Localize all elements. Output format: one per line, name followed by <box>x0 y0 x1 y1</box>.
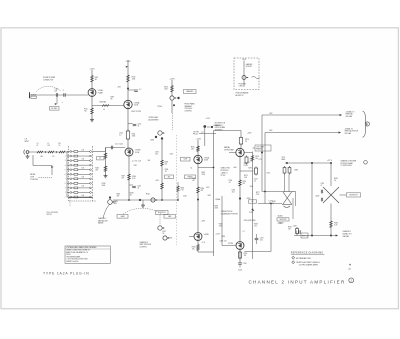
svg-text:TP 262: TP 262 <box>221 175 226 177</box>
svg-text:CONNECTOR: CONNECTOR <box>43 80 54 82</box>
svg-text:R269: R269 <box>219 224 223 226</box>
svg-text:+225V: +225V <box>170 78 176 80</box>
svg-text:+125V: +125V <box>206 118 210 120</box>
svg-text:R259: R259 <box>165 161 169 163</box>
svg-text:R277: R277 <box>163 231 167 233</box>
svg-text:+95V: +95V <box>155 180 159 182</box>
svg-text:R290: R290 <box>244 253 248 255</box>
svg-text:SWEEP 1mS/DIV: SWEEP 1mS/DIV <box>66 261 79 263</box>
svg-text:P250-1: P250-1 <box>158 106 163 108</box>
svg-text:56K: 56K <box>95 169 98 171</box>
svg-text:+12 V: +12 V <box>327 160 333 162</box>
svg-text:220K: 220K <box>202 174 206 176</box>
svg-text:1.5-7.3 4-45: 1.5-7.3 4-45 <box>115 144 123 146</box>
svg-text:C281: C281 <box>321 183 325 185</box>
svg-text:+1.35: +1.35 <box>202 242 206 244</box>
svg-text:C255: C255 <box>170 153 174 155</box>
svg-text:2-8: 2-8 <box>52 156 54 158</box>
svg-text:PROBE: PROBE <box>30 174 35 176</box>
svg-text:-150V: -150V <box>293 226 297 228</box>
svg-text:2.7K: 2.7K <box>181 190 184 192</box>
svg-text:V263B: V263B <box>204 234 209 236</box>
svg-text:.5: .5 <box>63 90 64 92</box>
svg-text:15K: 15K <box>288 229 291 231</box>
svg-text:100K: 100K <box>219 226 223 228</box>
svg-text:2: 2 <box>367 124 368 126</box>
svg-text:R283: R283 <box>334 178 338 180</box>
svg-text:C247: C247 <box>134 165 138 167</box>
svg-text:47: 47 <box>138 126 140 128</box>
svg-text:10X: 10X <box>82 168 85 170</box>
svg-text:C270: C270 <box>244 163 248 165</box>
svg-text:R255: R255 <box>191 146 195 148</box>
svg-text:COUPLING: COUPLING <box>30 179 39 181</box>
svg-text:900K: 900K <box>102 185 106 187</box>
svg-text:L262: L262 <box>269 130 273 132</box>
svg-text:56: 56 <box>103 109 105 111</box>
svg-text:6.2K: 6.2K <box>132 178 135 180</box>
svg-text:+96V: +96V <box>233 167 237 169</box>
svg-text:L2: L2 <box>48 143 50 145</box>
svg-text:10K: 10K <box>191 148 194 150</box>
svg-text:3K: 3K <box>111 99 113 101</box>
svg-text:NUVISTOR: NUVISTOR <box>280 219 287 221</box>
svg-text:6DJ8: 6DJ8 <box>204 160 208 162</box>
svg-text:1K: 1K <box>334 180 336 182</box>
svg-text:15K: 15K <box>192 249 195 251</box>
svg-text:C290: C290 <box>243 263 247 265</box>
svg-text:CONNECTED IN: CONNECTED IN <box>221 211 232 213</box>
svg-text:TO HTR: TO HTR <box>193 132 200 134</box>
svg-text:10X: 10X <box>82 186 85 188</box>
svg-text:POSITION: POSITION <box>158 212 165 214</box>
svg-text:1pF: 1pF <box>55 90 58 92</box>
svg-text:6DJ8: 6DJ8 <box>134 105 138 107</box>
svg-text:C264: C264 <box>232 189 236 191</box>
svg-text:MONITOR: MONITOR <box>350 195 359 197</box>
svg-text:+125V: +125V <box>201 221 205 223</box>
svg-text:5K: 5K <box>163 233 165 235</box>
svg-text:+85V: +85V <box>117 87 121 89</box>
svg-text:PICKOFF B: PICKOFF B <box>221 170 229 172</box>
svg-text:GANGED: GANGED <box>186 90 194 93</box>
svg-text:+62V: +62V <box>206 187 210 189</box>
svg-text:L252: L252 <box>269 113 273 115</box>
svg-text:R282: R282 <box>288 227 292 229</box>
svg-text:C275: C275 <box>267 172 271 174</box>
svg-text:10K: 10K <box>244 255 247 257</box>
svg-text:4.7: 4.7 <box>243 231 245 233</box>
svg-text:R267: R267 <box>215 205 219 207</box>
svg-text:CONTROL: CONTROL <box>185 111 192 113</box>
svg-text:.01: .01 <box>137 188 139 190</box>
svg-text:Q283: Q283 <box>316 195 320 197</box>
svg-text:R273: R273 <box>244 175 248 177</box>
svg-text:C263: C263 <box>254 179 258 181</box>
svg-text:R281: R281 <box>295 169 299 171</box>
svg-text:1K: 1K <box>165 171 167 173</box>
svg-text:R250: R250 <box>132 77 136 79</box>
svg-text:R280: R280 <box>272 201 276 203</box>
svg-text:100K: 100K <box>132 79 136 81</box>
svg-text:A-7: A-7 <box>349 267 352 270</box>
svg-text:10X: 10X <box>82 158 85 160</box>
svg-text:C1: C1 <box>37 143 39 145</box>
svg-text:R266: R266 <box>201 188 205 190</box>
svg-text:R260: R260 <box>181 188 185 190</box>
svg-text:47: 47 <box>321 185 323 187</box>
svg-text:V279: V279 <box>282 157 286 159</box>
svg-text:750: 750 <box>84 111 87 113</box>
svg-text:2.2: 2.2 <box>119 134 121 136</box>
svg-text:PIN 4,5: PIN 4,5 <box>193 134 198 136</box>
svg-text:R3: R3 <box>59 143 61 145</box>
svg-text:VERT POSITION: VERT POSITION <box>140 244 152 246</box>
svg-text:LOOP: LOOP <box>30 177 34 179</box>
svg-text:CHANNEL 2 INPUT AMPLIFIER: CHANNEL 2 INPUT AMPLIFIER <box>249 279 346 284</box>
svg-text:47K: 47K <box>201 190 204 192</box>
svg-text:R277: R277 <box>256 192 260 194</box>
svg-text:4-7: 4-7 <box>269 202 271 204</box>
svg-text:INPUT: INPUT <box>25 141 30 143</box>
svg-text:R286: R286 <box>254 224 258 226</box>
svg-text:TYPE 1A2A PLUG-IN: TYPE 1A2A PLUG-IN <box>43 271 89 275</box>
svg-text:330K: 330K <box>132 136 136 138</box>
svg-text:.001: .001 <box>40 156 43 158</box>
svg-text:R276: R276 <box>255 156 259 158</box>
svg-text:L270 TRIM: L270 TRIM <box>256 147 264 149</box>
svg-text:CONTROL: CONTROL <box>140 246 147 248</box>
svg-text:CH 2 VOLTS/DIV: CH 2 VOLTS/DIV <box>47 212 59 214</box>
svg-text:C258: C258 <box>183 159 187 161</box>
svg-text:.001: .001 <box>260 240 263 242</box>
svg-text:.001: .001 <box>232 191 235 193</box>
svg-text:C287: C287 <box>260 238 264 240</box>
svg-text:1K: 1K <box>245 141 247 143</box>
svg-text:ATTENUATORS: ATTENUATORS <box>296 257 311 260</box>
svg-text:R240: R240 <box>102 183 106 185</box>
svg-text:TO SWITCHING: TO SWITCHING <box>341 165 353 167</box>
svg-text:.005: .005 <box>155 154 158 156</box>
svg-text:R113: R113 <box>95 77 99 79</box>
svg-text:C283: C283 <box>249 212 253 214</box>
svg-text:SEL: SEL <box>168 176 171 178</box>
svg-text:1.5K: 1.5K <box>244 177 247 179</box>
svg-text:R265: R265 <box>117 193 121 195</box>
svg-text:47: 47 <box>37 145 39 147</box>
svg-text:V273B: V273B <box>228 243 233 245</box>
svg-text:CTRS: CTRS <box>239 85 243 87</box>
svg-text:4K: 4K <box>130 194 132 196</box>
svg-text:10X: 10X <box>82 149 85 151</box>
svg-text:R272: R272 <box>249 167 253 169</box>
svg-text:R251: R251 <box>132 134 136 136</box>
svg-text:R278: R278 <box>169 238 173 240</box>
svg-text:+225V: +225V <box>126 61 132 63</box>
svg-text:4.7: 4.7 <box>139 89 141 91</box>
svg-text:REFERENCE DIAGRAMS: REFERENCE DIAGRAMS <box>291 252 324 255</box>
svg-text:.02: .02 <box>229 182 231 184</box>
svg-text:C266: C266 <box>229 180 233 182</box>
svg-text:C101: C101 <box>55 88 59 90</box>
svg-text:OUTPUT AMPLIFIER: OUTPUT AMPLIFIER <box>299 264 319 267</box>
svg-text:R289: R289 <box>222 236 226 238</box>
svg-text:R246: R246 <box>132 176 136 178</box>
svg-text:R271: R271 <box>250 159 254 161</box>
svg-text:MOUNTED ON: MOUNTED ON <box>215 122 225 124</box>
svg-text:250: 250 <box>165 163 168 165</box>
svg-text:R262: R262 <box>202 172 206 174</box>
svg-text:C250: C250 <box>119 132 123 134</box>
svg-text:PROBE POWER: PROBE POWER <box>43 77 56 79</box>
svg-text:POSITION: POSITION <box>239 83 246 85</box>
svg-text:R256: R256 <box>164 87 168 89</box>
svg-text:L274: L274 <box>259 159 263 161</box>
svg-text:R264: R264 <box>146 193 150 195</box>
svg-text:R270: R270 <box>245 139 249 141</box>
svg-text:VOLTS/DIV: VOLTS/DIV <box>185 108 193 110</box>
svg-text:C262: C262 <box>192 178 196 180</box>
svg-text:C246: C246 <box>137 186 141 188</box>
svg-text:1K: 1K <box>272 203 274 205</box>
svg-text:R249: R249 <box>111 97 115 99</box>
svg-text:.047: .047 <box>192 180 195 182</box>
svg-text:NOTE:: NOTE: <box>66 254 71 256</box>
svg-text:B+: B+ <box>191 167 193 169</box>
svg-text:470: 470 <box>254 226 257 228</box>
svg-text:C251: C251 <box>138 124 142 126</box>
svg-text:R285: R285 <box>334 223 338 225</box>
svg-text:+1.2 TO -1.2V: +1.2 TO -1.2V <box>132 160 142 162</box>
svg-text:✱: ✱ <box>349 264 351 267</box>
svg-text:R287 1K: R287 1K <box>302 235 308 237</box>
svg-text:6DJ8: 6DJ8 <box>135 152 139 154</box>
svg-text:ELEV TO PIN: ELEV TO PIN <box>132 111 141 113</box>
svg-text:R261: R261 <box>165 169 169 171</box>
svg-text:4.5-25: 4.5-25 <box>244 165 248 167</box>
svg-text:20: 20 <box>59 145 61 147</box>
svg-text:SW 201: SW 201 <box>47 214 53 216</box>
svg-text:C289 .047: C289 .047 <box>220 241 227 243</box>
svg-text:▿: ▿ <box>62 101 63 104</box>
svg-text:R268: R268 <box>192 247 196 249</box>
svg-text:+225V: +225V <box>242 59 246 61</box>
svg-text:100K: 100K <box>164 89 168 91</box>
svg-text:+125V: +125V <box>216 233 220 235</box>
svg-text:UNDER CONDITIONS GIVEN ON: UNDER CONDITIONS GIVEN ON <box>66 250 90 252</box>
svg-text:10X: 10X <box>82 195 85 197</box>
svg-text:.01: .01 <box>254 181 256 183</box>
svg-text:+225V: +225V <box>247 132 251 134</box>
svg-text:SW2: SW2 <box>208 195 211 197</box>
svg-text:R284 470K R286: R284 470K R286 <box>244 220 256 222</box>
svg-text:WITH R?: WITH R? <box>246 66 252 68</box>
svg-text:P162: P162 <box>84 109 88 111</box>
svg-text:+225V: +225V <box>90 68 96 70</box>
svg-text:8.2K: 8.2K <box>334 225 337 227</box>
svg-text:R274: R274 <box>243 181 247 183</box>
svg-text:3.3K: 3.3K <box>250 161 253 163</box>
svg-text:470K: 470K <box>215 207 219 209</box>
svg-text:R243: R243 <box>95 167 99 169</box>
svg-text:R258: R258 <box>151 140 155 142</box>
svg-text:R247: R247 <box>122 175 126 177</box>
svg-text:+4.2: +4.2 <box>201 131 204 133</box>
svg-text:2.2K: 2.2K <box>256 194 259 196</box>
svg-text:10X: 10X <box>82 177 85 179</box>
svg-text:R248: R248 <box>130 192 134 194</box>
svg-text:C259: C259 <box>155 152 159 154</box>
svg-text:470: 470 <box>243 183 246 185</box>
svg-text:C260: C260 <box>183 195 187 197</box>
svg-text:47K: 47K <box>117 195 120 197</box>
